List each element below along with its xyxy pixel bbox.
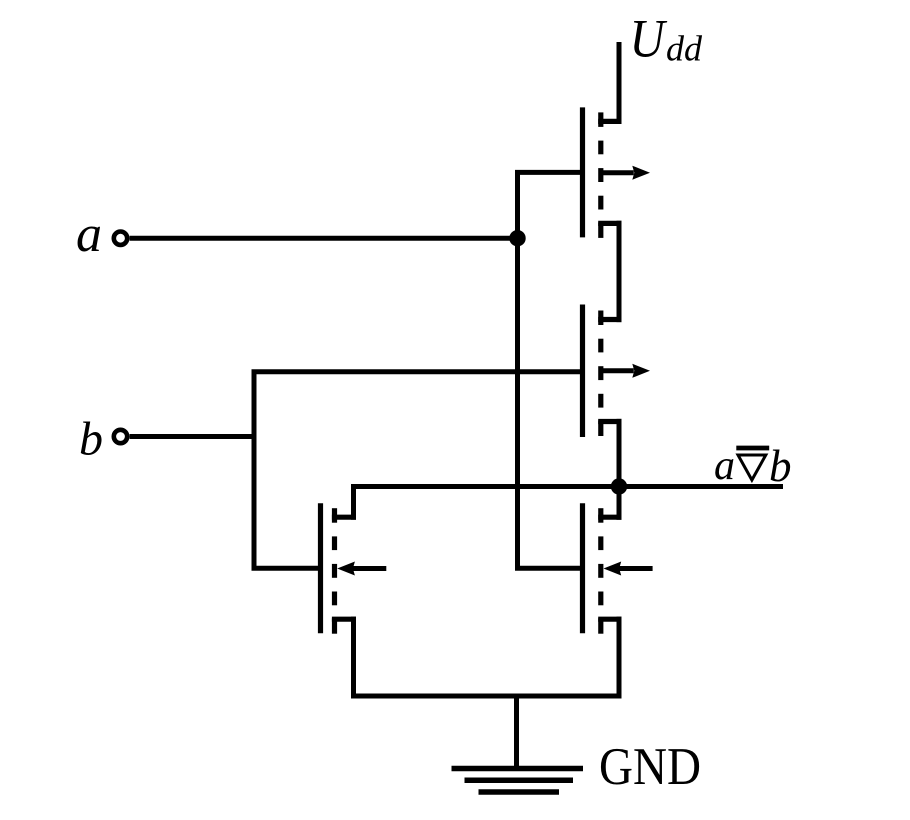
transistor T4 (NMOS left) bulk arrow (points left) [352, 566, 387, 571]
transistor T4 (NMOS left) gate [318, 503, 323, 633]
transistor T1 (PMOS top) source terminal [598, 221, 621, 226]
transistor T1 (PMOS top) channel (dashed) [598, 112, 603, 127]
ground bar 2 [465, 777, 574, 783]
svg-text:dd: dd [666, 29, 703, 69]
wire input a to node A [130, 236, 518, 241]
svg-text:a: a [76, 206, 102, 263]
transistor T1 (PMOS top) bulk arrow (points right) [601, 170, 634, 175]
transistor T1 (PMOS top) drain terminal [598, 119, 621, 124]
transistor T4 (NMOS left) source terminal [332, 617, 356, 622]
wire b-net: vertical riser with gate leads of T2 and T4 [254, 372, 580, 568]
svg-text:b: b [769, 441, 792, 491]
wire rail to ground [514, 694, 519, 769]
wire T1 source to T2 drain [617, 221, 622, 322]
transistor T3 (NMOS right) bulk arrow (points left) [618, 566, 653, 571]
svg-text:a: a [714, 443, 735, 489]
ground bar 1 [452, 766, 584, 772]
wire sources of T3 and T4 to common rail [354, 617, 620, 696]
wire output node to T3 drain [617, 487, 622, 520]
transistor T4 (NMOS left) channel (dashed) [332, 508, 337, 523]
transistor T3 (NMOS right) channel (dashed) [598, 508, 603, 523]
label a NOR b : overline of nabla [736, 446, 769, 451]
transistor T2 (PMOS second) gate [580, 305, 585, 438]
svg-text:b: b [79, 413, 103, 466]
wire T2 source to output node [617, 419, 622, 487]
transistor T3 (NMOS right) drain terminal [598, 515, 621, 520]
node OUT (junction dot) [611, 478, 627, 494]
transistor T2 (PMOS second) bulk arrow (points right) [601, 368, 634, 373]
transistor T2 (PMOS second) source terminal [598, 419, 621, 424]
svg-text:U: U [630, 9, 668, 69]
wire output net: T4 drain riser, across to output stub [354, 487, 784, 520]
transistor T2 (PMOS second) channel (dashed) [598, 311, 603, 326]
node A (junction dot) [509, 230, 525, 246]
input terminal a (open circle) [114, 232, 127, 245]
ground bar 3 [479, 789, 560, 795]
transistor T2 (PMOS second) drain terminal [598, 317, 621, 322]
label a NOR b : nabla operator [738, 455, 766, 480]
transistor T1 (PMOS top) gate [580, 107, 585, 237]
wire Udd to T1 drain [617, 42, 622, 124]
wire a-net: vertical riser with gate leads of T1 and T3 [518, 172, 581, 568]
transistor T3 (NMOS right) gate [580, 503, 585, 633]
wire input b to riser [130, 434, 256, 439]
svg-text:GND: GND [599, 738, 701, 796]
input terminal b (open circle) [114, 430, 127, 443]
transistor T3 (NMOS right) source terminal [598, 617, 621, 622]
transistor T4 (NMOS left) drain terminal [332, 515, 356, 520]
